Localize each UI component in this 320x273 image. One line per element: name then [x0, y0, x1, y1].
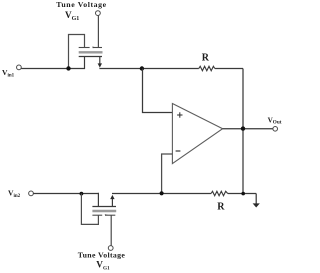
wire Vin2 to M2 drain — [33, 193, 99, 195]
ground arrow — [255, 194, 257, 204]
plus input mark — [177, 114, 182, 116]
terminal Vout — [273, 127, 278, 132]
junction dot plus input — [140, 66, 144, 70]
junction dot loop tap — [66, 66, 70, 70]
junction dot right rail — [241, 192, 245, 196]
wire right vertical — [242, 69, 244, 194]
wire plus input — [143, 69, 173, 113]
gate bar right M1 — [93, 47, 102, 49]
junction dot loop tap M2 — [80, 192, 84, 196]
svg-text:R: R — [202, 53, 210, 64]
bulk loop M2 — [81, 194, 98, 225]
terminal VG1 bottom — [108, 246, 113, 251]
terminal VG1 top — [96, 11, 101, 16]
svg-text:R: R — [217, 202, 225, 213]
svg-text:Tune Voltage: Tune Voltage — [56, 0, 106, 9]
floating gate bar M2 — [92, 210, 116, 212]
floating gate bar M1 — [79, 51, 103, 53]
svg-text:Tune Voltage: Tune Voltage — [78, 251, 126, 260]
resistor R ground — [211, 191, 228, 195]
wire M1 source to corner — [99, 68, 198, 70]
wire gate VG1 top — [97, 16, 99, 48]
minus input mark — [176, 150, 181, 152]
bulk loop M1 — [69, 35, 85, 69]
source leg arrow M1 — [99, 57, 101, 65]
resistor R feedback — [199, 66, 215, 70]
wire op-amp output — [223, 128, 273, 130]
drain leg M1 — [84, 57, 86, 70]
terminal Vin2 — [29, 191, 34, 196]
channel bar M2 — [92, 206, 116, 208]
junction dot output — [241, 126, 245, 130]
channel bar M1 — [79, 56, 102, 58]
wire minus input — [162, 154, 173, 194]
gate bar right M2 — [105, 214, 115, 216]
wire M2 source to R — [112, 193, 211, 195]
source leg arrow M2 — [111, 198, 113, 206]
gate bar left M2 — [92, 214, 102, 216]
op-amp U1 — [172, 104, 222, 164]
wire R to corner — [215, 68, 243, 70]
wire R to ground corner — [228, 193, 257, 195]
wire Vin1 to M1 drain — [21, 68, 85, 70]
transistor M1 — [69, 35, 103, 70]
junction dot minus input — [160, 191, 164, 195]
transistor M2 — [81, 193, 116, 246]
gate bar left M1 — [79, 47, 90, 49]
terminal Vin1 — [17, 65, 22, 70]
drain leg M2 — [97, 193, 99, 207]
wire gate VG1 bottom — [110, 215, 112, 245]
